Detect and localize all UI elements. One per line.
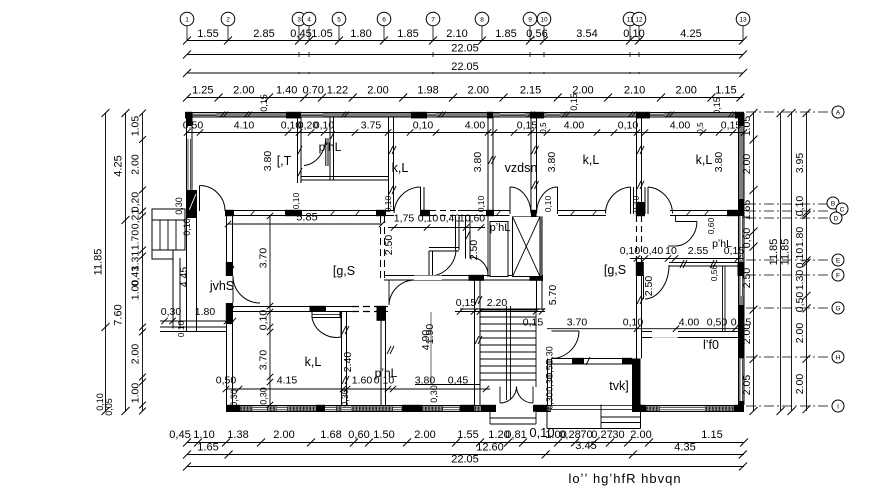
svg-text:0,10: 0,10 [176,320,186,337]
svg-text:1.30: 1.30 [794,270,806,291]
svg-text:0,15: 0,15 [259,94,269,112]
svg-text:13: 13 [739,17,747,24]
svg-text:.30: .30 [609,429,624,441]
svg-text:7: 7 [431,17,435,24]
middle wall columns [187,210,196,216]
stair east wall [536,216,538,280]
svg-text:0,30: 0,30 [545,392,555,410]
svg-text:0,15: 0,15 [721,120,742,132]
svg-text:[g,S: [g,S [333,264,355,278]
svg-text:11.85: 11.85 [768,239,780,266]
svg-text:0,10: 0,10 [618,120,639,132]
left exterior wall [186,113,188,332]
svg-text:4.10: 4.10 [234,120,255,132]
svg-text:4.25: 4.25 [113,155,125,176]
svg-text:1.60: 1.60 [352,375,373,387]
hall door arc at wall C [470,257,488,275]
svg-text:0,10: 0,10 [529,425,554,440]
svg-text:3.70: 3.70 [567,317,588,329]
svg-text:1.80: 1.80 [195,306,216,318]
svg-text:2.50: 2.50 [643,276,655,297]
vestibule door arc [233,276,260,303]
svg-text:10: 10 [540,17,548,24]
interior chain x=270 [269,216,271,405]
svg-text:2.05: 2.05 [741,375,753,396]
svg-text:0,10: 0,10 [413,120,434,132]
right chain 4 [806,113,808,411]
closet floor wall [301,176,388,178]
svg-text:0,10: 0,10 [794,196,806,217]
bath south wall / stair north wall [384,275,543,277]
left chain 1 - 11.85 [105,113,107,411]
lf0 dim row [547,328,744,330]
svg-text:0,30: 0,30 [545,374,555,392]
svg-text:2.20: 2.20 [487,297,508,309]
svg-text:vzdsn: vzdsn [505,161,538,175]
svg-text:10,60: 10,60 [459,213,485,225]
svg-text:0.70: 0.70 [302,85,323,97]
svg-text:4.45: 4.45 [178,267,190,288]
wall C lower / stair west wall [474,280,476,405]
svg-text:7.60: 7.60 [113,304,125,325]
svg-text:0,30: 0,30 [259,387,269,405]
svg-text:2.00: 2.00 [233,85,254,97]
svg-text:3: 3 [297,17,301,24]
svg-text:4.15: 4.15 [277,375,298,387]
svg-text:0,5: 0,5 [539,122,548,134]
svg-text:2.85: 2.85 [253,28,274,40]
svg-text:2.50: 2.50 [468,240,480,261]
svg-text:0,10: 0,10 [631,195,641,212]
svg-text:1.22: 1.22 [327,85,348,97]
svg-text:1: 1 [185,17,189,24]
svg-text:2.00: 2.00 [130,154,142,175]
svg-text:3.80: 3.80 [546,152,558,173]
svg-text:0,45: 0,45 [169,429,190,441]
svg-text:0,10: 0,10 [620,245,641,257]
svg-text:0,10: 0,10 [623,28,644,40]
svg-text:4.25: 4.25 [680,28,701,40]
svg-text:pʼhL: pʼhL [490,222,511,234]
left chain 3 [142,113,144,411]
left chain 2 - 4.25 7.60 [125,113,127,411]
svg-text:0,60: 0,60 [706,217,716,234]
svg-text:0,21: 0,21 [130,209,142,230]
left step wall [160,326,227,328]
svg-text:1.00: 1.00 [130,383,142,404]
svg-text:k,L: k,L [305,355,322,369]
grid bubbles A-I right [832,106,844,118]
svg-text:1.80: 1.80 [794,227,806,248]
svg-text:pʼhL: pʼhL [712,238,732,250]
hearth step below gS wall [312,312,340,318]
top dimension row 2 - 22.05 [187,54,743,56]
svg-text:2.00: 2.00 [130,344,142,365]
bottom dim row C - 22.05 [187,466,744,468]
svg-text:22.05: 22.05 [451,43,479,55]
svg-text:0,45: 0,45 [290,28,311,40]
stair hall south walls [415,384,480,386]
svg-text:8: 8 [480,17,484,24]
svg-text:5.70: 5.70 [547,285,559,306]
svg-text:12.60: 12.60 [476,442,504,454]
svg-text:0,56: 0,56 [526,28,547,40]
svg-text:1.40: 1.40 [276,85,297,97]
svg-text:0,10: 0,10 [383,195,393,212]
svg-text:12: 12 [635,17,643,24]
svg-text:0,05: 0,05 [104,398,114,416]
svg-text:loʼʼ hgʼhfR hbvqn: loʼʼ hgʼhfR hbvqn [568,471,681,486]
middle wall hatch marks [250,210,255,216]
stair top dim 0,15 2.20 [455,311,545,313]
bath2 inner line [722,266,724,332]
svg-text:1.80: 1.80 [350,28,371,40]
svg-text:22.05: 22.05 [451,454,479,466]
svg-text:0,50: 0,50 [183,120,204,132]
svg-text:1.85: 1.85 [397,28,418,40]
top wall glazing marks [220,112,225,118]
svg-text:pʼhL: pʼhL [319,140,342,154]
svg-text:1.25: 1.25 [192,85,213,97]
svg-text:tvk]: tvk] [609,379,628,393]
svg-text:3.45: 3.45 [575,440,596,452]
svg-text:2.40: 2.40 [342,352,354,373]
bottom band partition 1 [341,312,343,406]
svg-text:4.00: 4.00 [670,120,691,132]
svg-text:D: D [834,216,839,223]
svg-text:lʼf0: lʼf0 [703,338,719,352]
svg-text:2.55: 2.55 [688,245,709,257]
svg-text:1.00: 1.00 [130,280,142,301]
svg-text:jvhS: jvhS [209,279,234,293]
svg-text:0,10: 0,10 [623,317,644,329]
svg-text:11.85: 11.85 [93,249,105,276]
svg-text:k,L: k,L [583,153,600,167]
svg-text:0,10: 0,10 [258,310,270,331]
kL bottom door arc [312,318,341,337]
bath2 door leaf+arc [643,275,645,299]
svg-text:B: B [831,201,835,208]
svg-text:1.85: 1.85 [495,28,516,40]
svg-text:2.00: 2.00 [741,154,753,175]
svg-text:0,10: 0,10 [543,195,553,212]
svg-text:0,50: 0,50 [707,317,728,329]
svg-text:1,75: 1,75 [394,213,415,225]
svg-text:3.70: 3.70 [258,350,270,371]
svg-text:2.00: 2.00 [630,429,651,441]
svg-text:0,5: 0,5 [696,122,705,134]
svg-text:0,30: 0,30 [429,385,439,403]
top dimension row 4 - window chain [187,97,743,99]
svg-text:0,10: 0,10 [291,192,301,209]
bottom wall black segments [226,405,240,412]
svg-text:2.00: 2.00 [794,374,806,395]
svg-text:22.05: 22.05 [451,61,479,73]
right chain 2 - 11.85 [780,113,782,411]
svg-text:2.10: 2.10 [624,85,645,97]
svg-text:0,50: 0,50 [794,292,806,313]
svg-text:pʼhL: pʼhL [375,366,398,380]
right double door arcs [630,187,632,214]
svg-text:H: H [836,355,841,362]
bottom dim row B [187,454,744,456]
wall B - right of closet [388,117,390,211]
dim 1.75 row [388,227,485,229]
tvk porch steps [547,428,641,430]
svg-text:5: 5 [337,17,341,24]
tvk door arc [552,331,580,359]
shaft with X cross [513,217,541,277]
svg-text:4.90: 4.90 [420,330,432,351]
gS south wall [228,306,388,308]
svg-text:0,15: 0,15 [517,120,538,132]
svg-text:1.05: 1.05 [130,116,142,137]
tvk east black wall [632,359,641,406]
svg-text:5.85: 5.85 [296,212,317,224]
svg-text:0,30: 0,30 [340,389,350,407]
right chain 3 - 11.85 [791,113,793,411]
svg-text:0,45: 0,45 [448,375,469,387]
interior top dim row [187,132,744,134]
right chain 1 [753,113,755,411]
svg-text:3.80: 3.80 [472,152,484,173]
stairs main [460,308,545,310]
entry double door [500,387,517,404]
lower bath door arc [389,280,414,305]
svg-text:k,L: k,L [696,153,713,167]
svg-text:10: 10 [665,245,677,257]
svg-text:9: 9 [528,17,532,24]
svg-text:3.75: 3.75 [361,120,382,132]
svg-text:1.15: 1.15 [701,429,722,441]
left outdoor stair [152,209,185,220]
svg-text:0,40: 0,40 [643,245,664,257]
wall C upper [487,117,489,211]
wall C middle segment [465,216,467,259]
upper k,L door leaf+arc [420,187,422,214]
svg-text:0,50: 0,50 [709,264,719,281]
gS2 west wall lower [636,276,638,332]
bottom exterior wall [226,406,744,412]
svg-text:3.54: 3.54 [576,28,597,40]
svg-text:0,40: 0,40 [440,213,461,225]
svg-text:1.65: 1.65 [197,442,218,454]
svg-text:1.10: 1.10 [193,429,214,441]
nook step and arc right of double door [675,216,677,222]
svg-text:2.00: 2.00 [794,323,806,344]
wall E upper [636,117,638,211]
svg-text:G: G [835,306,840,313]
closet east wall [329,117,331,180]
stair divider [506,306,508,400]
svg-text:0,15: 0,15 [456,297,477,309]
vzdsn door leaf and arc [510,210,532,217]
svg-text:2.10: 2.10 [446,28,467,40]
duct door rect [490,222,508,277]
dim 5.85 row [228,223,382,225]
bottom band partition 2 [380,312,382,406]
bottom dim row A [187,442,744,444]
svg-text:4.00: 4.00 [465,120,486,132]
svg-text:0,30: 0,30 [161,306,182,318]
svg-text:3.70: 3.70 [258,248,270,269]
svg-text:2.50: 2.50 [741,268,753,289]
closet door leaf and arc [325,138,327,166]
svg-text:I: I [837,404,839,411]
dim 0,30 1.80 left [160,320,234,322]
right exterior wall [739,113,745,405]
svg-text:k,L: k,L [392,161,409,175]
svg-text:1.70: 1.70 [130,230,142,251]
svg-text:1.38: 1.38 [227,429,248,441]
bathroom west dashed wall [380,216,382,280]
svg-text:3.80: 3.80 [262,151,274,172]
svg-text:1.05: 1.05 [741,116,753,137]
svg-text:3.80: 3.80 [415,375,436,387]
svg-text:11.85: 11.85 [780,239,792,266]
svg-text:4: 4 [307,17,311,24]
tvk north wall [552,358,633,360]
svg-text:4.35: 4.35 [674,442,695,454]
svg-text:0,81: 0,81 [505,429,526,441]
svg-text:1.68: 1.68 [320,429,341,441]
svg-text:3.95: 3.95 [794,153,806,174]
svg-text:1.15: 1.15 [715,85,736,97]
svg-text:2.15: 2.15 [520,85,541,97]
double door column upper [636,202,645,216]
svg-text:1.50: 1.50 [373,429,394,441]
middle horizontal wall [187,210,744,212]
svg-text:2: 2 [226,17,230,24]
svg-text:0,60: 0,60 [348,429,369,441]
svg-text:0,10: 0,10 [476,195,486,212]
left vestibule wall [226,216,228,405]
svg-text:0,60: 0,60 [741,228,753,249]
svg-text:2.00: 2.00 [675,85,696,97]
lf0 north wall [642,331,739,333]
top dimension row 3 - 22.05 [187,72,743,74]
svg-text:0,10: 0,10 [314,120,335,132]
closet west wall [297,117,299,183]
right dim row 0,10 0,40 2.55 [630,258,744,260]
svg-text:3.80: 3.80 [713,152,725,173]
svg-text:[,T: [,T [277,154,292,168]
svg-text:2.00: 2.00 [273,429,294,441]
svg-text:4.00: 4.00 [679,317,700,329]
svg-text:0,30: 0,30 [229,389,239,407]
svg-text:0,10: 0,10 [794,248,806,269]
bathroom partitions center [455,217,457,250]
right bubble leader lines [746,111,830,113]
dashed wall below double door [636,216,638,262]
ensuite door arc [429,250,456,276]
tvk west wall [547,359,549,406]
,T room door leaf and arc [199,186,201,212]
svg-text:6: 6 [382,17,386,24]
top wall columns [185,112,192,119]
wall D upper [530,117,532,211]
svg-text:1.55: 1.55 [457,429,478,441]
svg-text:0,30: 0,30 [174,197,184,215]
svg-text:2.00: 2.00 [367,85,388,97]
svg-text:0,15: 0,15 [569,93,579,111]
svg-text:C: C [840,207,845,214]
svg-text:0,10: 0,10 [418,213,439,225]
svg-text:0,50: 0,50 [216,375,237,387]
svg-text:0,15: 0,15 [523,317,544,329]
svg-text:2.00: 2.00 [741,324,753,345]
entry porch steps [490,417,536,419]
top dimension row 1 [187,40,743,42]
lf0 west wall upper [636,332,638,359]
svg-text:[g,S: [g,S [604,263,626,277]
svg-text:4.00: 4.00 [564,120,585,132]
svg-text:E: E [836,258,841,265]
top exterior wall [186,113,744,118]
svg-text:1.65: 1.65 [741,200,753,221]
svg-text:0,10: 0,10 [182,218,192,236]
svg-text:1.05: 1.05 [311,28,332,40]
svg-text:1.98: 1.98 [417,85,438,97]
right mid wall at bathroom [645,262,738,264]
svg-text:1.55: 1.55 [197,28,218,40]
svg-text:2.00: 2.00 [468,85,489,97]
svg-text:2.50: 2.50 [383,235,395,256]
kL2 door leaf and arc [537,210,559,217]
grid bubbles 1-13 top [180,12,194,26]
svg-text:A: A [836,110,841,117]
svg-text:2.00: 2.00 [414,429,435,441]
bottom interior dim row [226,388,490,390]
svg-text:F: F [836,273,840,280]
